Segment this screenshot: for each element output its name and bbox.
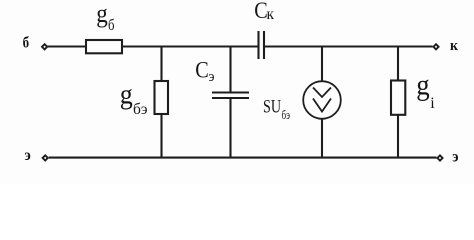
svg-text:i: i	[430, 95, 435, 112]
svg-text:C: C	[195, 57, 209, 83]
wire g_бэ top	[160, 47, 162, 82]
wire g_i bottom	[397, 115, 399, 158]
wire top right	[264, 45, 433, 47]
svg-text:бэ: бэ	[133, 101, 148, 118]
svg-text:g: g	[416, 70, 430, 102]
svg-text:g: g	[96, 0, 108, 28]
svg-text:б: б	[23, 35, 30, 52]
svg-text:к: к	[267, 6, 275, 23]
wire source top	[321, 47, 323, 82]
resistor g_i	[391, 81, 405, 115]
svg-text:э: э	[209, 69, 215, 85]
terminal э right	[437, 155, 442, 160]
svg-text:б: б	[108, 17, 115, 34]
capacitor C_э	[212, 93, 249, 99]
wire base input	[47, 45, 86, 47]
resistor g_бэ	[155, 81, 169, 114]
wire top middle	[122, 45, 259, 47]
current source SU_бэ	[303, 81, 341, 119]
wire C_э bottom	[229, 98, 231, 158]
wire g_бэ bottom	[160, 114, 162, 158]
wire emitter bottom	[49, 157, 437, 159]
svg-text:g: g	[120, 79, 133, 110]
capacitor C_к	[259, 31, 265, 59]
wire C_э top	[229, 47, 231, 93]
svg-text:э: э	[25, 147, 32, 164]
wire source bottom	[321, 119, 323, 158]
terminal к (collector)	[433, 44, 438, 49]
wire g_i top	[397, 47, 399, 81]
resistor g_б	[86, 40, 122, 53]
svg-text:к: к	[450, 38, 458, 54]
svg-text:SU: SU	[263, 97, 281, 117]
svg-text:бэ: бэ	[282, 107, 291, 122]
terminal э left	[43, 155, 48, 160]
svg-text:э: э	[452, 148, 459, 165]
terminal б (base)	[42, 44, 47, 49]
